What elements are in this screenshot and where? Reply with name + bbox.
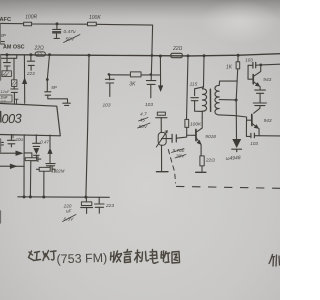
ground near 5P xyxy=(63,103,71,105)
node junction cap103 top xyxy=(108,73,111,76)
wire long vertical center-left xyxy=(86,55,89,197)
wire bus down right xyxy=(236,69,238,139)
small boxed label above IC xyxy=(0,95,12,102)
hanzi ji xyxy=(135,250,149,263)
resistor R 100R xyxy=(24,22,32,26)
hanzi dian xyxy=(150,250,158,264)
wire y75 right part xyxy=(141,74,161,76)
wire emitter down xyxy=(200,145,202,156)
wire emitter Q2 down xyxy=(259,87,261,90)
hanzi yin xyxy=(124,250,132,263)
capacitor 10u below IC xyxy=(10,135,12,140)
wire vertical x44 xyxy=(43,172,45,197)
wire vertical pin x24 xyxy=(23,135,25,197)
capacitor 0.47u/50V xyxy=(56,24,58,29)
wire out lower right xyxy=(255,135,280,137)
partial character right edge xyxy=(269,255,280,267)
wire bottom bus xyxy=(18,196,109,199)
title handwritten: 红灯(753 FM)收音机电路图 xyxy=(29,251,57,261)
capacitor inter 1 xyxy=(255,90,266,93)
pin stub IC top xyxy=(15,99,18,103)
capacitor 220uF electrolytic xyxy=(85,197,87,202)
capacitor left small xyxy=(4,63,11,66)
hanzi shou xyxy=(111,251,122,262)
wire step to ground xyxy=(48,95,68,103)
capacitor pair x14 xyxy=(11,86,18,103)
resistor 100K vertical xyxy=(187,56,189,120)
wire out top right xyxy=(261,63,280,66)
core line xyxy=(209,89,211,111)
capacitor below diode xyxy=(46,164,55,166)
wire emitter Q3 to cap xyxy=(258,129,260,136)
capacitor coupling to base xyxy=(162,138,172,140)
wire arrow input 2 xyxy=(0,165,24,167)
resistor small hatched xyxy=(12,80,17,87)
diode up x50 xyxy=(49,135,51,148)
electrolytic 102M horizontal xyxy=(39,167,50,171)
diode down below 0.47 xyxy=(33,148,39,154)
node junction AFC vertical x rail xyxy=(151,54,154,57)
transistor Q3 xyxy=(254,106,260,114)
capacitor 0.47 below IC xyxy=(35,135,37,143)
diode arrow up on x24 xyxy=(22,77,27,84)
wire mid horizontal y75 xyxy=(110,74,131,76)
capacitor inter 2 xyxy=(253,103,266,106)
capacitor electrolytic 4.7u xyxy=(157,112,165,115)
wire vertical x31 xyxy=(29,161,31,197)
node junction xyxy=(46,78,49,81)
capacitor 103 first xyxy=(109,75,111,80)
wire AFC mid xyxy=(32,23,88,25)
diode 1N4148 xyxy=(232,139,241,148)
pin stubs IC bottom xyxy=(12,135,14,138)
wire AFC right + corner down xyxy=(96,24,152,55)
wire secondary top tap xyxy=(219,81,237,85)
wire arrow input 1 xyxy=(0,152,16,154)
transistor Q1 9018 xyxy=(195,130,197,141)
capacitor 223 bottom xyxy=(98,197,100,204)
wire branch x49 down to 5P xyxy=(47,55,49,92)
capacitor tank xyxy=(195,87,204,96)
hanzi tu xyxy=(172,252,180,264)
wire tank feed xyxy=(203,56,206,87)
capacitor at left edge xyxy=(0,142,3,145)
ground pot xyxy=(156,171,168,173)
wire pot to ground xyxy=(161,145,163,171)
component box left xyxy=(2,71,11,77)
photo edge smudges xyxy=(0,24,1,223)
transistor Q2 xyxy=(252,75,254,84)
capacitor 103 second xyxy=(150,55,153,80)
wire left chain x14 xyxy=(13,58,15,80)
resistor R 100K xyxy=(88,22,97,25)
hanzi lu xyxy=(161,251,170,263)
wire dashed gang coupling xyxy=(168,150,175,184)
node junction on AFC xyxy=(56,22,59,25)
inductor primary winding xyxy=(202,87,203,89)
ground emitter xyxy=(196,171,206,173)
wire AGC arrow down xyxy=(159,56,161,86)
resistor 3K xyxy=(130,72,141,77)
capacitor 223 (left) xyxy=(30,55,32,61)
wire branch x24 to IC xyxy=(23,55,25,104)
wire main top rail xyxy=(0,54,280,56)
hanzi deng xyxy=(43,251,56,261)
hanzi hong xyxy=(29,251,41,261)
wire left branch x7 xyxy=(6,58,8,62)
op-amp U1 IC box xyxy=(0,103,60,136)
wire AFC line left xyxy=(0,22,24,24)
inductor secondary winding xyxy=(215,85,219,115)
resistor 22R emitter xyxy=(200,156,204,166)
capacitor 103 lower right xyxy=(246,120,250,136)
wire secondary mid tap xyxy=(219,99,236,101)
node junction dots on rail xyxy=(6,53,9,56)
wire secondary bottom tap xyxy=(219,115,246,120)
wire step + electrolytic horizontal xyxy=(24,153,32,158)
wire sub line below rail xyxy=(1,55,16,59)
potentiometer volume xyxy=(158,132,166,145)
